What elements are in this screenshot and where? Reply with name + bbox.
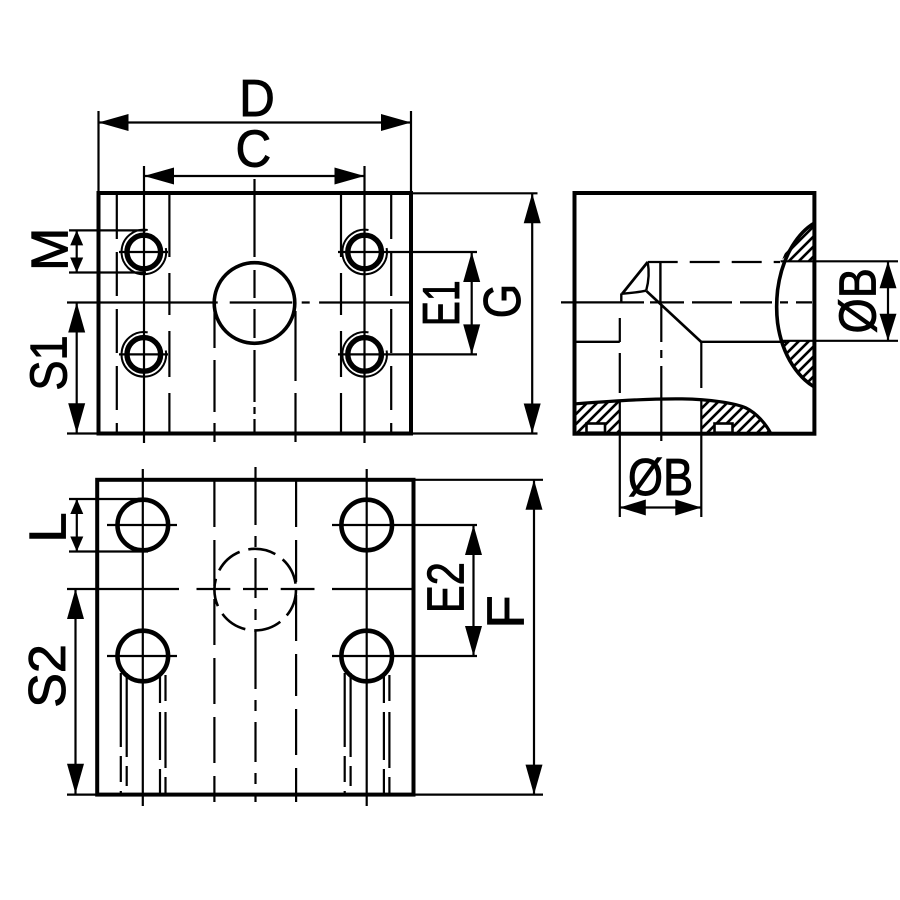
tapped hole bottom-right circle: [348, 338, 382, 372]
port boss outline: [777, 223, 815, 387]
dimension C line: [144, 175, 365, 177]
dimension E2 extension bottom: [332, 655, 477, 657]
hole column line left: [142, 469, 144, 806]
clearance hole top-right: [341, 500, 392, 551]
hidden thread lines under hole bottom-left: [120, 673, 122, 794]
svg-text:C: C: [235, 120, 271, 178]
dimension E2 extension top: [332, 524, 477, 526]
central bore circle: [214, 263, 295, 344]
port bottom edge right: [701, 341, 786, 343]
hidden vertical port wall right: [700, 342, 702, 400]
tapped hole top-left thread arc: [122, 230, 167, 275]
central bore hidden circle: [214, 549, 296, 631]
hidden line right inner: [390, 195, 392, 432]
cone vertical edge: [659, 262, 661, 302]
dimension S2 line: [74, 589, 76, 794]
TOP VIEW GROUP: [67, 166, 411, 443]
svg-text:F: F: [478, 595, 536, 628]
hidden bore wall right: [295, 481, 297, 802]
SIDE VIEW GROUP: [561, 193, 898, 517]
horizontal center line: [561, 301, 812, 303]
hole center line row1 left: [107, 524, 177, 526]
vertical center line: [253, 179, 255, 433]
dimension L extension top: [69, 498, 148, 500]
mount face boundary: [576, 399, 771, 434]
hole column line right: [366, 469, 368, 806]
port boss hatch lower: [781, 341, 814, 387]
dimension OB right line: [887, 261, 889, 341]
hidden bore wall left: [213, 481, 215, 802]
dimension S1 line: [76, 303, 78, 434]
dimension D line: [99, 121, 412, 123]
cone flank diagonal: [646, 291, 701, 342]
port boss hatch upper: [782, 223, 815, 261]
seal notch left: [587, 424, 606, 433]
cone flap right edge: [646, 262, 648, 291]
top view outline: [99, 193, 412, 434]
dimension G extension top: [413, 192, 538, 194]
dimension G line: [531, 193, 533, 433]
hole column line right: [363, 166, 365, 443]
clearance hole bottom-right: [341, 631, 392, 682]
BOTTOM VIEW GROUP: [67, 467, 414, 806]
clearance hole bottom-left: [118, 631, 169, 682]
port bottom edge left: [575, 341, 620, 343]
cone flap upper edge: [622, 262, 647, 294]
dimension G extension bottom: [413, 432, 538, 434]
extension line port wall right: [700, 400, 702, 517]
tapped hole top-right thread arc: [342, 230, 387, 275]
mount face hatch right: [701, 400, 770, 433]
svg-text:ØB: ØB: [830, 268, 888, 333]
horizontal center line: [67, 588, 414, 590]
seal notch right: [715, 424, 733, 433]
port vertical center line: [660, 305, 662, 448]
dimension D extension left: [97, 111, 99, 193]
hidden line left of bore: [168, 195, 170, 432]
dimension M line: [76, 230, 78, 272]
svg-text:L: L: [20, 512, 78, 542]
tapped hole top-left circle: [127, 235, 161, 269]
hole center line row1 left: [119, 251, 168, 253]
cone flap lower edge: [621, 291, 646, 294]
svg-text:E1: E1: [412, 280, 471, 326]
cone flap left step: [620, 293, 622, 302]
dimension L line: [76, 499, 78, 552]
dimension OB bottom line: [620, 506, 702, 508]
hole center line row2 left: [107, 655, 177, 657]
vertical center line: [254, 467, 256, 802]
svg-text:S2: S2: [19, 644, 77, 708]
tapped hole top-right circle: [348, 235, 382, 269]
hidden vertical port wall left: [619, 318, 621, 400]
dimension F extension top: [415, 479, 543, 481]
mount face hatch left: [576, 400, 620, 432]
hole column line left: [143, 166, 145, 443]
dimension M extension top: [69, 229, 146, 231]
svg-text:E2: E2: [416, 562, 475, 613]
dimension S1 extension bottom: [67, 432, 99, 434]
svg-text:M: M: [22, 228, 80, 271]
dimension E2 line: [472, 525, 474, 656]
tapped hole bottom-left circle: [127, 338, 161, 372]
LABELS GROUP: [19, 69, 887, 708]
dimension F line: [533, 480, 535, 795]
hole center line row2 left: [119, 353, 168, 355]
extension line port wall left: [619, 400, 621, 517]
svg-text:ØB: ØB: [628, 449, 693, 507]
bottom view outline: [97, 480, 413, 795]
tapped hole bottom-left thread arc: [122, 332, 167, 377]
dimension M extension bottom: [69, 271, 146, 273]
port top extension line: [781, 260, 899, 262]
svg-text:S1: S1: [21, 335, 79, 390]
dimension L extension bottom: [69, 550, 148, 552]
hidden bore wall left: [213, 311, 215, 442]
dimension E1 line: [471, 252, 473, 354]
DIMENSIONS GROUP: [67, 111, 897, 795]
hidden port top line: [648, 261, 780, 263]
dimension F extension bottom: [415, 793, 543, 795]
dimension E1 extension bottom: [338, 353, 477, 355]
dimension E1 extension top: [338, 251, 477, 253]
dimension D extension right: [410, 111, 412, 193]
side view outline: [575, 193, 815, 434]
horizontal center line: [67, 301, 411, 303]
hidden line right of bore: [340, 195, 342, 432]
port bottom extension line: [783, 340, 899, 342]
tapped hole bottom-right thread arc: [342, 332, 387, 377]
hidden bore wall right: [294, 311, 296, 442]
dimension S2 extension bottom: [67, 793, 97, 795]
clearance hole top-left: [118, 500, 169, 551]
svg-text:D: D: [239, 69, 275, 127]
hidden thread lines under hole bottom-right: [344, 673, 346, 794]
hidden line left inner: [116, 195, 118, 432]
svg-text:G: G: [474, 284, 532, 318]
